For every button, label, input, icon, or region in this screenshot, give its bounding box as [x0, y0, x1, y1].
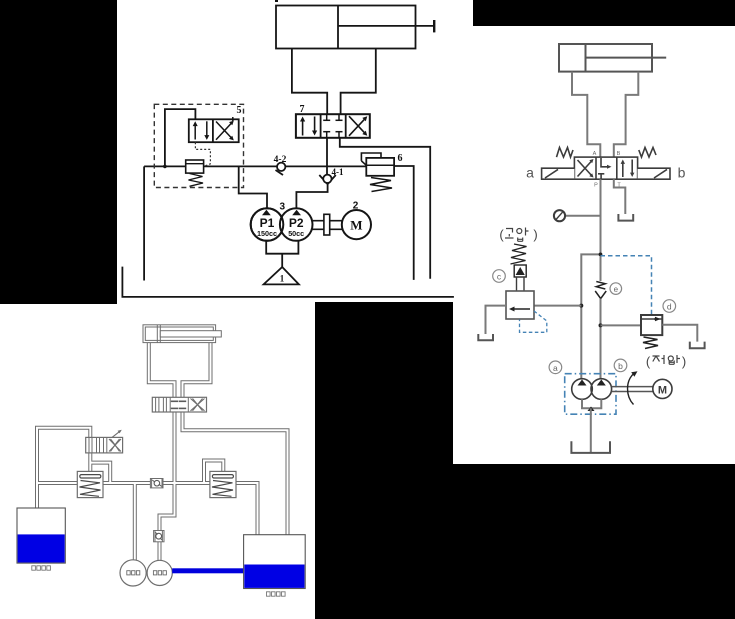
- wire cylinder left to valve7 A: [292, 49, 327, 115]
- go: [506, 229, 513, 233]
- svg-text:5: 5: [237, 105, 242, 116]
- pump dash-dot box: [565, 374, 616, 415]
- tank T: [618, 214, 633, 221]
- cylinder body: [276, 6, 416, 49]
- cylinder outer: [143, 325, 216, 343]
- (goap) high pressure text : hand-drawn hangul: [499, 227, 537, 242]
- main valve X cell: [191, 399, 205, 411]
- pressure gauge line: [565, 215, 601, 217]
- label b pump: [614, 359, 627, 372]
- relief c drain: [486, 306, 507, 334]
- wire P down: [600, 179, 602, 281]
- main valve port seats: [171, 401, 186, 408]
- valve V7 right cell X: [349, 116, 367, 136]
- svg-text:(: (: [499, 227, 504, 242]
- white region main band: [117, 26, 735, 465]
- svg-text:P: P: [594, 183, 598, 189]
- valve V5 body: [189, 119, 239, 142]
- valve V5 right cell X: [216, 117, 234, 140]
- pressure gauge: [554, 210, 565, 221]
- check valve 4-2: [277, 163, 285, 171]
- ap: [517, 229, 522, 234]
- wire valve7 P down: [326, 138, 328, 175]
- relief valve 6 box: [366, 158, 394, 176]
- rod end bar: [433, 20, 435, 32]
- black middle rect: [315, 302, 453, 619]
- check valve on main line: [150, 479, 163, 488]
- suction lines: [266, 241, 298, 254]
- cylinder piston: [156, 325, 158, 343]
- relief c blue pilot dashed: [520, 311, 547, 332]
- left valve body: [86, 437, 123, 453]
- coupling: [324, 214, 330, 235]
- pump P1 circle: [251, 208, 284, 241]
- svg-text:3: 3: [280, 202, 286, 213]
- main valve solenoid bars: [156, 397, 189, 412]
- right tank label: [267, 592, 286, 596]
- svg-text:M: M: [350, 218, 362, 233]
- cylinder rod: [586, 57, 667, 59]
- svg-text:P2: P2: [289, 216, 304, 230]
- pump suction: [582, 399, 601, 408]
- main horizontal line: [144, 165, 366, 167]
- valve V7 body: [296, 114, 370, 138]
- svg-text:4-2: 4-2: [274, 155, 287, 165]
- label a pump: [549, 361, 562, 374]
- springs: [557, 148, 574, 158]
- cylinder body: [559, 44, 652, 72]
- right cell arrows: [622, 162, 624, 177]
- wire to relief d: [601, 324, 642, 326]
- port labels A B P T: [593, 151, 622, 189]
- label d: [663, 300, 676, 313]
- relief valve c spring: [511, 244, 527, 264]
- (jeoap) low pressure text : hand-drawn hangul: [646, 354, 686, 369]
- relief valve d spring: [643, 337, 658, 349]
- svg-text:4-1: 4-1: [332, 167, 344, 177]
- node: [579, 304, 583, 308]
- blue pipe: [172, 568, 244, 573]
- label e: [610, 283, 622, 295]
- label c: [493, 270, 506, 283]
- lever arrow: [112, 431, 121, 438]
- tank d: [690, 342, 705, 349]
- relief valve 6 spring: [370, 178, 392, 192]
- jeo: [653, 356, 660, 362]
- svg-text:d: d: [667, 302, 672, 312]
- svg-text:b: b: [618, 361, 623, 371]
- pump labels (tiny hangul approximations): [127, 571, 167, 575]
- svg-text:7: 7: [300, 104, 305, 115]
- wire cylinder right to valve B: [614, 72, 639, 158]
- cylinder rod: [338, 25, 434, 27]
- tank main: [571, 441, 610, 453]
- pipe white cores: [37, 343, 288, 561]
- svg-text:e: e: [614, 285, 619, 294]
- pump P1 triangle: [262, 210, 271, 215]
- pump a triangle: [578, 380, 587, 386]
- relief valve R5 box: [186, 160, 204, 173]
- outer tank line: [122, 267, 454, 297]
- pump b triangle: [597, 380, 606, 386]
- center cell blocked P: [598, 173, 604, 175]
- black bottom-right: [453, 464, 735, 619]
- relief valve d arrow path: [641, 318, 662, 320]
- wire valve7 T to tank return: [340, 138, 430, 279]
- svg-text:b: b: [678, 165, 686, 181]
- node: [599, 253, 603, 257]
- cylinder rod: [160, 331, 221, 337]
- right tank: [244, 535, 306, 589]
- relief valve c arrow: [512, 308, 530, 310]
- right relief box: [210, 471, 236, 497]
- tiny cropped mark top: [275, 0, 278, 2]
- white region bottom-left: [0, 304, 315, 619]
- blue pilot dashed to d: [601, 256, 652, 315]
- valve V7 left cell arrows: [300, 117, 317, 136]
- rotation arrow: [628, 374, 634, 405]
- valve DCV body: [542, 148, 670, 180]
- svg-text:6: 6: [398, 153, 403, 164]
- throttle-check e: [595, 282, 606, 299]
- white region top strip: [117, 0, 473, 27]
- pump a circle: [572, 379, 593, 400]
- small pump circle: [147, 560, 172, 585]
- left wall: [143, 166, 145, 280]
- svg-text:a: a: [526, 165, 534, 181]
- large pump circle: [120, 560, 146, 586]
- svg-text:): ): [533, 227, 537, 242]
- relief valve c stem: [516, 277, 518, 291]
- main valve body: [152, 397, 206, 412]
- left tank: [17, 508, 65, 563]
- relief valve c pilot box: [514, 265, 526, 277]
- solenoid boxes: [542, 168, 575, 179]
- strainer triangle 1: [264, 267, 299, 284]
- labels P1 P2: [257, 201, 359, 239]
- node: [599, 323, 603, 327]
- pump P2 triangle: [292, 210, 301, 215]
- wire 4-1 to P2: [296, 184, 327, 208]
- pilot dotted line V5: [195, 142, 210, 166]
- wire relief c to branch: [534, 305, 581, 307]
- left relief box: [77, 471, 103, 497]
- relief valve c box: [506, 291, 534, 319]
- relief valve 6 flag: [361, 153, 381, 161]
- center cell path A->B: [601, 158, 610, 167]
- motor shaft: [311, 220, 342, 222]
- svg-text:50cc: 50cc: [288, 229, 304, 238]
- pipe outlines: [37, 343, 288, 561]
- svg-text:A: A: [593, 151, 597, 157]
- svg-text:1: 1: [280, 274, 285, 284]
- cylinder piston: [337, 6, 339, 49]
- wire main line to P1: [239, 166, 267, 208]
- svg-text:): ): [682, 354, 686, 369]
- relief d drain: [662, 325, 697, 342]
- node on main line: [163, 165, 167, 169]
- svg-text:a: a: [553, 363, 558, 373]
- motor shaft: [612, 386, 653, 388]
- junction branch: [581, 254, 600, 379]
- wire valve V5 feed: [165, 109, 196, 166]
- check valve 4-1: [319, 175, 336, 184]
- svg-text:150cc: 150cc: [257, 229, 277, 238]
- svg-text:P1: P1: [260, 216, 275, 230]
- wire cylinder right to valve7 B: [341, 49, 376, 115]
- pump P2 circle: [280, 208, 313, 241]
- motor M circle: [653, 379, 672, 398]
- cylinder piston: [585, 44, 587, 72]
- svg-text:(: (: [646, 354, 651, 369]
- motor M circle: [342, 210, 371, 239]
- wire cylinder left to valve A: [572, 72, 600, 158]
- left cell X: [578, 160, 593, 177]
- pump b circle: [591, 379, 612, 400]
- svg-text:M: M: [658, 384, 667, 396]
- tank c: [478, 334, 493, 340]
- wire T to tank: [614, 179, 626, 214]
- wire to tank: [590, 408, 592, 453]
- check valve on small pump pipe: [154, 531, 164, 542]
- ap: [668, 356, 673, 361]
- relief valve R5 spring: [189, 174, 204, 187]
- left tank label: [32, 566, 51, 570]
- dashed box 5: [154, 104, 243, 187]
- main line right of valve6 + right wall: [394, 166, 414, 280]
- left valve X cell: [109, 430, 122, 452]
- svg-text:B: B: [617, 151, 621, 157]
- valve V5 left cell arrows: [193, 121, 210, 140]
- valve V7 center cell blocked ports: [323, 114, 342, 138]
- relief valve d box: [641, 315, 662, 335]
